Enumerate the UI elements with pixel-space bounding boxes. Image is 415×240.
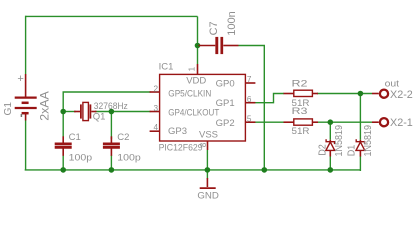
capacitor C2 top plate: [103, 142, 120, 145]
diode D1 schottky cathode bar: [356, 139, 364, 144]
capacitor C7 left lead: [199, 45, 216, 47]
resistor R3 left lead: [284, 121, 295, 123]
connector X2-2 lead: [372, 93, 379, 95]
svg-text:R2: R2: [292, 78, 308, 89]
resistor R3 right lead: [313, 121, 319, 123]
junction node GND at rail: [205, 167, 211, 173]
wire GP2 pin 5 to R3: [255, 121, 285, 123]
wire crystal left node down to C1: [62, 112, 64, 140]
IC1 pin 7 stub GP0: [245, 82, 255, 84]
junction node crystal right: [109, 109, 115, 115]
battery G1 cell 2 plate short: [22, 112, 29, 115]
wire C1 bottom to rail: [62, 155, 64, 170]
battery G1 bottom pin: [25, 113, 27, 120]
battery G1 cell 1 plate long: [15, 96, 37, 98]
svg-text:5: 5: [247, 114, 252, 123]
junction node D2 on R3 net: [328, 119, 334, 125]
capacitor C7 right plate: [220, 37, 223, 54]
svg-text:GP2: GP2: [216, 118, 235, 129]
battery G1 cell 1 plate short: [22, 102, 29, 105]
junction node crystal left: [60, 109, 66, 115]
IC1 pin 6 stub GP1: [245, 102, 255, 104]
op IC1 PIC12F629 body: [160, 74, 246, 141]
capacitor C1 bottom plate: [55, 146, 72, 149]
capacitor C2 bottom plate: [103, 146, 120, 149]
junction node C7 drop at rail: [262, 167, 268, 173]
IC1 pin 4 stub GP3: [150, 130, 160, 132]
svg-text:GND: GND: [197, 190, 219, 201]
wire VSS pin 8 to rail: [206, 150, 208, 170]
wire C7 right to vertical drop: [239, 46, 265, 171]
svg-text:3: 3: [153, 104, 158, 113]
capacitor C7 right lead: [223, 45, 238, 47]
wire crystal left lead net: [63, 111, 76, 113]
junction node D2 at rail: [328, 167, 334, 173]
wire GP5/CLKIN to crystal left: [63, 92, 150, 112]
wire crystal right to GP4/CLKOUT: [95, 111, 151, 113]
svg-text:8: 8: [199, 142, 208, 147]
svg-text:1N5819: 1N5819: [363, 125, 374, 157]
svg-text:X2-2: X2-2: [390, 89, 413, 101]
diode D2 triangle: [326, 142, 335, 150]
svg-text:D2: D2: [317, 144, 328, 156]
svg-text:2: 2: [153, 84, 158, 93]
wire rail to GND symbol: [206, 170, 208, 179]
diode D2 top pin: [329, 140, 331, 142]
diode D1 triangle: [356, 142, 365, 150]
battery G1 top pin: [25, 74, 27, 97]
connector X2-1 lead: [372, 121, 379, 123]
svg-text:100p: 100p: [69, 152, 93, 163]
crystal Q1 body box: [83, 102, 89, 120]
diode D2 schottky cathode bar: [326, 139, 334, 144]
svg-text:C1: C1: [69, 132, 81, 143]
wire VDD vertical from top wire to pin 1: [197, 16, 199, 64]
battery G1 cell 2 plate long: [15, 107, 37, 109]
resistor R2 left lead: [284, 93, 295, 95]
junction node C2 at rail: [109, 167, 115, 173]
junction node VDD / C7: [195, 43, 201, 49]
crystal Q1 right lead: [91, 111, 96, 113]
svg-text:GP5/CLKIN: GP5/CLKIN: [168, 88, 211, 99]
svg-text:D1: D1: [347, 145, 358, 157]
svg-text:R3: R3: [292, 106, 308, 117]
svg-text:6: 6: [247, 95, 252, 104]
wire battery plus vertical: [25, 16, 27, 74]
svg-text:C7: C7: [208, 21, 220, 35]
svg-text:+: +: [17, 73, 23, 85]
svg-text:PIC12F629: PIC12F629: [159, 143, 203, 154]
diode D1 bottom pin: [359, 150, 361, 156]
wire D2 bottom to rail: [329, 156, 331, 170]
svg-text:1N5819: 1N5819: [334, 125, 345, 157]
svg-text:Q1: Q1: [93, 112, 106, 123]
svg-text:32768Hz: 32768Hz: [94, 101, 128, 112]
svg-text:C2: C2: [117, 132, 129, 143]
svg-text:IC1: IC1: [159, 61, 174, 72]
wire R2 to X2-2: [317, 93, 372, 95]
resistor R3 body: [294, 119, 313, 125]
wire D1 top vertical from R2 net: [359, 94, 361, 140]
wire top horizontal from battery plus to VDD node: [26, 15, 198, 17]
capacitor C2 bottom lead: [110, 149, 112, 156]
junction node C1 at rail: [60, 167, 66, 173]
svg-text:GP1: GP1: [216, 98, 235, 109]
capacitor C7 left plate: [215, 37, 218, 54]
ground symbol bar: [200, 187, 216, 189]
svg-text:GP0: GP0: [216, 78, 235, 89]
ground symbol pin: [206, 178, 208, 187]
svg-text:100n: 100n: [226, 11, 238, 36]
wire R3 to X2-1: [317, 121, 372, 123]
wire GP1 pin 6 jog to R2: [255, 94, 285, 103]
svg-text:VDD: VDD: [186, 76, 206, 87]
diode D2 bottom pin: [329, 150, 331, 156]
svg-text:7: 7: [247, 75, 252, 84]
resistor R2 body: [294, 90, 313, 96]
capacitor C2 top lead: [110, 136, 112, 142]
connector X2-2 pad ring: [380, 90, 388, 98]
junction node D1 on R2 net: [358, 91, 364, 97]
IC1 pin 8 stub VSS: [207, 141, 209, 150]
svg-text:GP3: GP3: [168, 126, 187, 137]
svg-text:1: 1: [187, 66, 196, 71]
IC1 pin 1 stub VDD: [197, 64, 199, 74]
crystal Q1 left lead: [74, 111, 80, 113]
IC1 pin 3 stub GP4/CLKOUT: [150, 111, 160, 113]
svg-text:GP4/CLKOUT: GP4/CLKOUT: [168, 107, 219, 118]
svg-text:VSS: VSS: [199, 130, 218, 141]
connector X2-1 pad ring: [380, 118, 388, 126]
resistor R2 right lead: [313, 93, 319, 95]
svg-text:4: 4: [153, 123, 158, 132]
IC1 pin 2 stub GP5/CLKIN: [150, 91, 160, 93]
capacitor C1 top lead: [62, 136, 64, 142]
capacitor C1 bottom lead: [62, 149, 64, 156]
svg-text:2xAA: 2xAA: [37, 90, 51, 120]
wire ground rail: [25, 169, 361, 171]
crystal Q1 right plate: [89, 104, 91, 118]
IC1 pin 5 stub GP2: [245, 121, 255, 123]
svg-text:X2-1: X2-1: [390, 117, 413, 129]
wire battery minus down to ground rail: [25, 121, 27, 171]
diode D1 top pin: [359, 140, 361, 142]
battery minus sign: [20, 114, 22, 117]
capacitor C1 top plate: [55, 142, 72, 145]
wire C2 bottom to rail: [110, 155, 112, 170]
svg-text:G1: G1: [3, 102, 14, 116]
crystal Q1 left plate: [80, 104, 82, 118]
wire D1 bottom to rail: [359, 156, 361, 171]
svg-text:100p: 100p: [117, 152, 141, 163]
svg-text:51R: 51R: [292, 126, 310, 137]
wire crystal right node down to C2: [110, 112, 112, 140]
wire D2 top vertical from R3 net: [329, 122, 331, 140]
